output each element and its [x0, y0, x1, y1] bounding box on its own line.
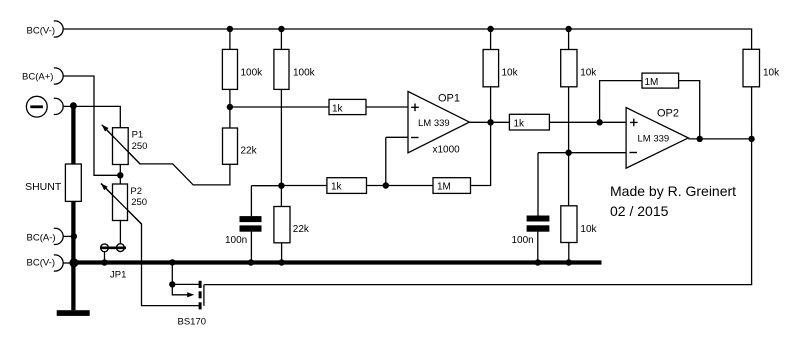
svg-text:100n: 100n: [225, 235, 247, 246]
svg-text:100n: 100n: [512, 235, 534, 246]
svg-text:22k: 22k: [293, 224, 310, 235]
svg-text:Made by R. Greinert: Made by R. Greinert: [610, 183, 736, 199]
svg-text:10k: 10k: [580, 67, 597, 78]
svg-text:LM 339: LM 339: [418, 118, 450, 129]
svg-text:100k: 100k: [241, 67, 264, 78]
svg-text:OP1: OP1: [438, 93, 460, 105]
svg-text:BC(A-): BC(A-): [27, 232, 56, 243]
svg-text:10k: 10k: [763, 67, 780, 78]
svg-text:250: 250: [131, 197, 147, 208]
svg-text:OP2: OP2: [657, 108, 679, 120]
svg-text:LM 339: LM 339: [638, 133, 670, 144]
svg-text:1M: 1M: [437, 182, 451, 193]
svg-text:JP1: JP1: [110, 269, 126, 280]
svg-text:1k: 1k: [514, 119, 526, 130]
svg-text:250: 250: [132, 141, 148, 152]
svg-text:P1: P1: [132, 130, 144, 141]
svg-text:BC(V-): BC(V-): [27, 257, 56, 268]
svg-text:10k: 10k: [502, 67, 519, 78]
svg-text:1k: 1k: [331, 182, 343, 193]
svg-text:BS170: BS170: [178, 317, 207, 328]
svg-text:02 / 2015: 02 / 2015: [610, 203, 669, 219]
svg-text:100k: 100k: [293, 67, 316, 78]
svg-text:22k: 22k: [241, 146, 258, 157]
svg-text:BC(V-): BC(V-): [27, 25, 56, 36]
svg-text:SHUNT: SHUNT: [25, 181, 62, 193]
svg-text:10k: 10k: [580, 224, 597, 235]
svg-text:BC(A+): BC(A+): [22, 72, 53, 83]
svg-text:1k: 1k: [332, 104, 344, 115]
svg-text:1M: 1M: [645, 77, 659, 88]
svg-text:x1000: x1000: [433, 145, 461, 156]
svg-text:P2: P2: [130, 186, 142, 197]
